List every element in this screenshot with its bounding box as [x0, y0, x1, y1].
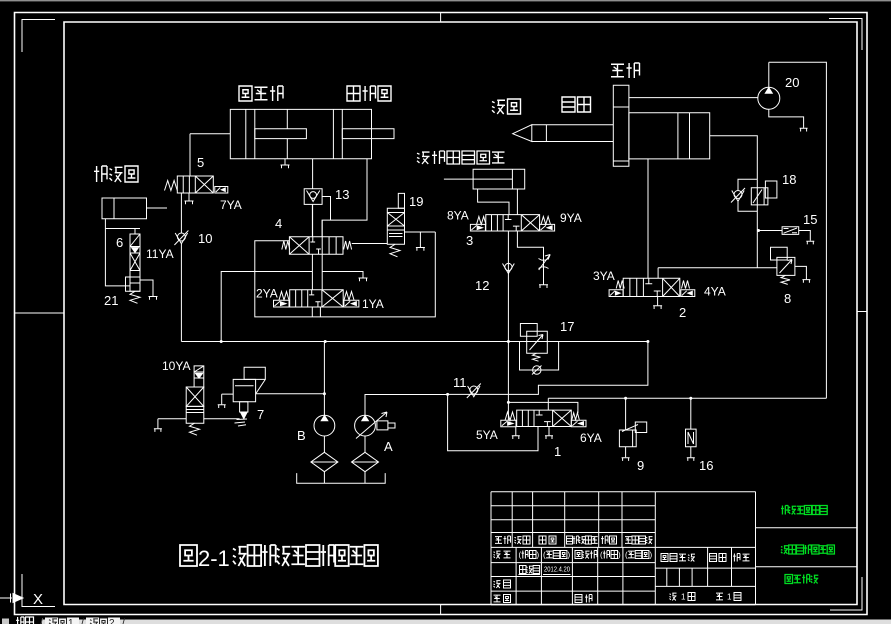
svg-text:12: 12 [475, 278, 489, 293]
svg-text:5YA: 5YA [476, 428, 498, 442]
svg-text:9: 9 [637, 458, 644, 473]
svg-text:19: 19 [409, 194, 423, 209]
svg-text:2YA: 2YA [256, 287, 278, 301]
svg-text:11: 11 [453, 375, 467, 390]
svg-text:1: 1 [68, 618, 74, 624]
svg-text:10YA: 10YA [162, 359, 190, 373]
svg-text:15: 15 [803, 212, 817, 227]
svg-text:(: ( [625, 551, 628, 560]
svg-text:11YA: 11YA [146, 247, 174, 261]
svg-text:1: 1 [727, 593, 732, 602]
svg-text:2: 2 [109, 618, 115, 624]
svg-text:(: ( [519, 551, 522, 560]
svg-text:1YA: 1YA [362, 297, 384, 311]
svg-text:1: 1 [554, 444, 561, 459]
svg-text:): ) [537, 551, 540, 560]
svg-text:B: B [297, 428, 306, 443]
svg-text:18: 18 [782, 172, 796, 187]
svg-text:3: 3 [466, 233, 473, 248]
svg-text:6YA: 6YA [580, 431, 602, 445]
svg-text:1: 1 [681, 593, 686, 602]
svg-text:X: X [33, 591, 43, 608]
svg-text:2012.4.20: 2012.4.20 [544, 565, 570, 574]
svg-text:21: 21 [104, 293, 118, 308]
svg-text:10: 10 [198, 231, 212, 246]
svg-text:13: 13 [335, 187, 349, 202]
svg-text:): ) [568, 551, 571, 560]
svg-text:17: 17 [560, 319, 574, 334]
svg-text:4: 4 [275, 216, 282, 231]
svg-text:16: 16 [699, 458, 713, 473]
svg-text:2: 2 [679, 305, 686, 320]
svg-text:8YA: 8YA [447, 209, 469, 223]
svg-text:): ) [650, 551, 653, 560]
svg-text:7: 7 [257, 407, 264, 422]
svg-text:(: ( [600, 551, 603, 560]
svg-text:20: 20 [785, 75, 799, 90]
svg-text:): ) [618, 551, 621, 560]
svg-text:9YA: 9YA [560, 211, 582, 225]
svg-text:3YA: 3YA [593, 269, 615, 283]
svg-text:(: ( [543, 551, 546, 560]
svg-text:5: 5 [197, 155, 204, 170]
svg-text:8: 8 [784, 291, 791, 306]
svg-text:4YA: 4YA [704, 285, 726, 299]
svg-text:A: A [384, 439, 393, 454]
svg-text:2-1: 2-1 [198, 546, 230, 571]
svg-text:6: 6 [116, 235, 123, 250]
svg-text:7YA: 7YA [220, 198, 242, 212]
